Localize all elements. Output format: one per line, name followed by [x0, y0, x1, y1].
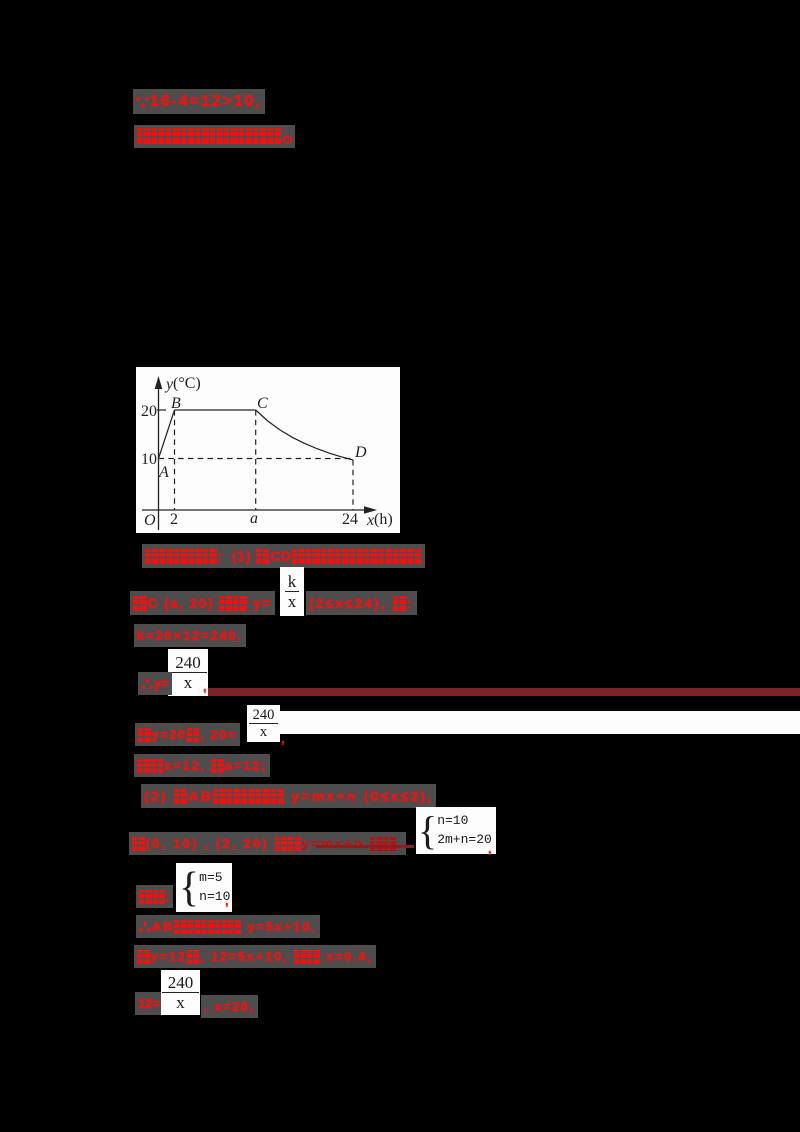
tick at y=20: [157, 409, 166, 411]
line 2: bold conclusion sentence (simulated CJK): [134, 128, 295, 144]
line 9: (2) set AB segment: [141, 788, 436, 804]
svg-text:(h): (h): [374, 511, 393, 528]
system image {m=5, n=10: [176, 863, 232, 912]
line 13: when y=12: [134, 949, 376, 964]
system of equations image {n=10, 2m+n=20: [416, 807, 496, 854]
x axis: [142, 509, 368, 511]
maroon divider bar: [208, 688, 800, 696]
line 4: substitute into y=k/x: [130, 595, 275, 611]
line 8: solve x=12 so a=12: [134, 758, 270, 773]
svg-text:A: A: [158, 464, 169, 481]
240/x fraction image: [168, 649, 208, 696]
line 7: when y=20: [135, 727, 240, 742]
hyperbola C to D: [256, 410, 353, 460]
line 1: because 16-4=12>10: [133, 93, 265, 111]
dashed vertical at x=a: [255, 410, 257, 510]
dashed vertical at x=24: [352, 460, 354, 510]
k/x fraction image: [280, 567, 304, 616]
svg-text:a: a: [250, 510, 258, 527]
svg-text:B: B: [171, 395, 181, 412]
dashed vertical at x=2: [174, 410, 176, 510]
line 10: substitute two points: [129, 836, 406, 851]
svg-text:D: D: [354, 444, 367, 461]
dashed horizontal at y=10: [159, 458, 354, 460]
svg-text:24: 24: [342, 511, 358, 528]
line 12: therefore AB expression: [136, 919, 320, 934]
svg-text:x: x: [366, 512, 374, 529]
line 5: k=20x12=240: [134, 628, 246, 643]
svg-text:2: 2: [170, 511, 178, 528]
line 14: 12 = 240/x, x=20: [135, 996, 163, 1011]
line 3: answer heading: [142, 548, 425, 564]
segment A to B: [159, 410, 175, 459]
x axis arrow head: [364, 506, 377, 514]
svg-text:C: C: [257, 395, 268, 412]
svg-text:10: 10: [141, 451, 157, 468]
svg-text:O: O: [144, 512, 156, 529]
y axis arrow head: [155, 376, 163, 389]
chart image (white background graph): [136, 367, 400, 533]
segment B to C: [175, 409, 256, 411]
line 11: solve: [136, 889, 173, 904]
svg-text:20: 20: [141, 403, 157, 420]
maroon strike-through over tail of line 10: [316, 845, 414, 848]
240/x fraction image with wide white band: [247, 705, 280, 742]
line 6: therefore y = 240/x: [138, 676, 172, 691]
y axis: [158, 382, 160, 530]
svg-text:(°C): (°C): [173, 375, 201, 392]
